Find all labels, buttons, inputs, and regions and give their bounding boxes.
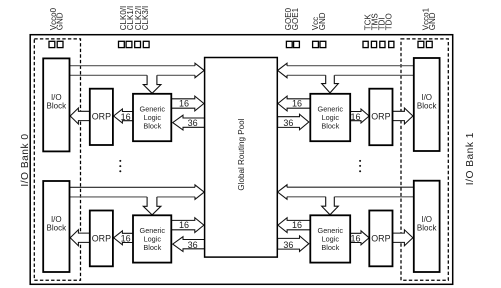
svg-text:36: 36 [188,240,198,250]
svg-text:Block: Block [321,122,339,131]
svg-text:16: 16 [350,234,360,244]
pin pad CLK3 [143,41,149,47]
svg-text:Block: Block [47,223,68,232]
wire bus upper-right line2 [287,74,414,76]
svg-text:16: 16 [179,220,189,230]
Global Routing Pool box [205,58,278,258]
block arrow GLB to ORP lower-left (16) [114,231,133,245]
block arrow GRP to GLB lower-right (36) [278,236,309,252]
wire bus upper-left line2 [70,74,196,76]
clock branch arrow lower-right into GLB [322,197,339,215]
block arrow GLB to ORP upper-right (16) [350,109,369,123]
svg-text:16: 16 [121,234,131,244]
clock branch arrow upper-left into GLB [143,75,161,93]
clock branch arrow upper-right into GLB [322,75,339,93]
svg-text:GOE1: GOE1 [291,7,300,30]
pin pad Vcco1 [418,41,424,47]
svg-text:16: 16 [292,99,302,109]
wire bus lower-left line2 [70,196,196,198]
pin pad TMS [371,41,376,47]
svg-text:36: 36 [283,118,293,128]
block arrow GRP to GLB upper-left (36) [173,115,205,130]
Generic Logic Block upper-left [133,94,171,141]
ORP upper-left [90,89,113,145]
svg-text:Block: Block [143,122,161,131]
block arrow GLB to ORP lower-right (16) [350,231,369,245]
pin pad CLK0 [119,41,125,47]
I/O Block upper-left [43,58,69,151]
arrowhead bus lower-left into GRP [195,185,204,200]
svg-text:GND: GND [428,12,437,30]
I/O Bank 1 dashed boundary [401,39,448,280]
svg-text:Global Routing Pool: Global Routing Pool [237,118,246,190]
wire bus lower-left line1 [70,186,196,188]
ORP upper-right [369,89,392,146]
arrowhead bus lower-right into GRP [278,185,287,200]
pin pad GND (bank0) [57,41,63,47]
svg-text:16: 16 [121,112,131,122]
arrowhead bus upper-left into GRP [195,63,204,77]
block arrow ORP to I/O lower-left [70,230,90,246]
pin pad TDI [380,41,385,47]
svg-text:ORP: ORP [371,233,390,243]
wire bus lower-right line1 [287,186,414,188]
Generic Logic Block lower-left [133,215,171,262]
pin pad GND (core) [320,41,326,47]
ORP lower-left [90,211,113,267]
wire bus lower-right line2 [287,196,414,198]
svg-text:Block: Block [417,102,438,111]
svg-text:Block: Block [321,243,339,252]
svg-text:CLK3/I: CLK3/I [141,6,150,30]
block arrow ORP to I/O upper-left [70,108,90,124]
svg-text:16: 16 [292,220,302,230]
pin pad CLK2 [135,41,141,47]
svg-text:GND: GND [318,12,327,30]
block arrow GLB to GRP lower-left (16) [171,218,204,233]
I/O Bank 0 dashed boundary [34,39,80,280]
svg-text:ORP: ORP [92,112,111,122]
svg-text:ORP: ORP [371,112,390,122]
svg-text:TDO: TDO [384,13,393,30]
I/O Block lower-left [43,181,69,272]
svg-text:GND: GND [56,12,65,30]
block arrow GLB to GRP upper-left (16) [171,96,204,111]
svg-text:16: 16 [179,99,189,109]
wire bus upper-left line1 [70,65,196,67]
pin pad TDO [389,41,394,47]
ellipsis dots left [119,160,121,162]
pin pad GOE1 [294,41,300,47]
svg-text:16: 16 [350,112,360,122]
block arrow ORP to I/O upper-right [393,108,413,124]
block arrow ORP to I/O lower-right [393,230,413,246]
pin pad GND (bank1) [426,41,432,47]
block arrow GLB to GRP lower-right (16) [278,218,310,233]
svg-text:I/O Bank 0: I/O Bank 0 [20,133,31,186]
Generic Logic Block upper-right [310,94,350,141]
svg-text:36: 36 [188,118,198,128]
Generic Logic Block lower-right [310,215,350,262]
block arrow GRP to GLB lower-left (36) [173,237,205,252]
svg-text:ORP: ORP [92,233,111,243]
ORP lower-right [369,211,392,267]
pin pad Vcc [313,41,319,47]
arrowhead bus upper-right into GRP [278,63,287,77]
block arrow GRP to GLB upper-right (36) [278,114,309,130]
I/O Block upper-right [414,58,440,151]
pin pad TCK [363,41,368,47]
svg-text:Block: Block [47,102,68,111]
pin pad GOE0 [286,41,292,47]
svg-text:Block: Block [143,243,161,252]
pin pad Vcco0 [49,41,55,47]
svg-text:Block: Block [417,223,438,232]
svg-text:36: 36 [283,240,293,250]
clock branch arrow lower-left into GLB [143,197,161,215]
I/O Block lower-right [414,181,440,272]
pin pad CLK1 [126,41,132,47]
block arrow GLB to ORP upper-left (16) [114,109,133,123]
block arrow GLB to GRP upper-right (16) [278,96,310,111]
device outline [30,35,453,285]
ellipsis dots right [359,160,361,162]
svg-text:I/O Bank 1: I/O Bank 1 [465,132,476,185]
wire bus upper-right line1 [287,65,414,67]
